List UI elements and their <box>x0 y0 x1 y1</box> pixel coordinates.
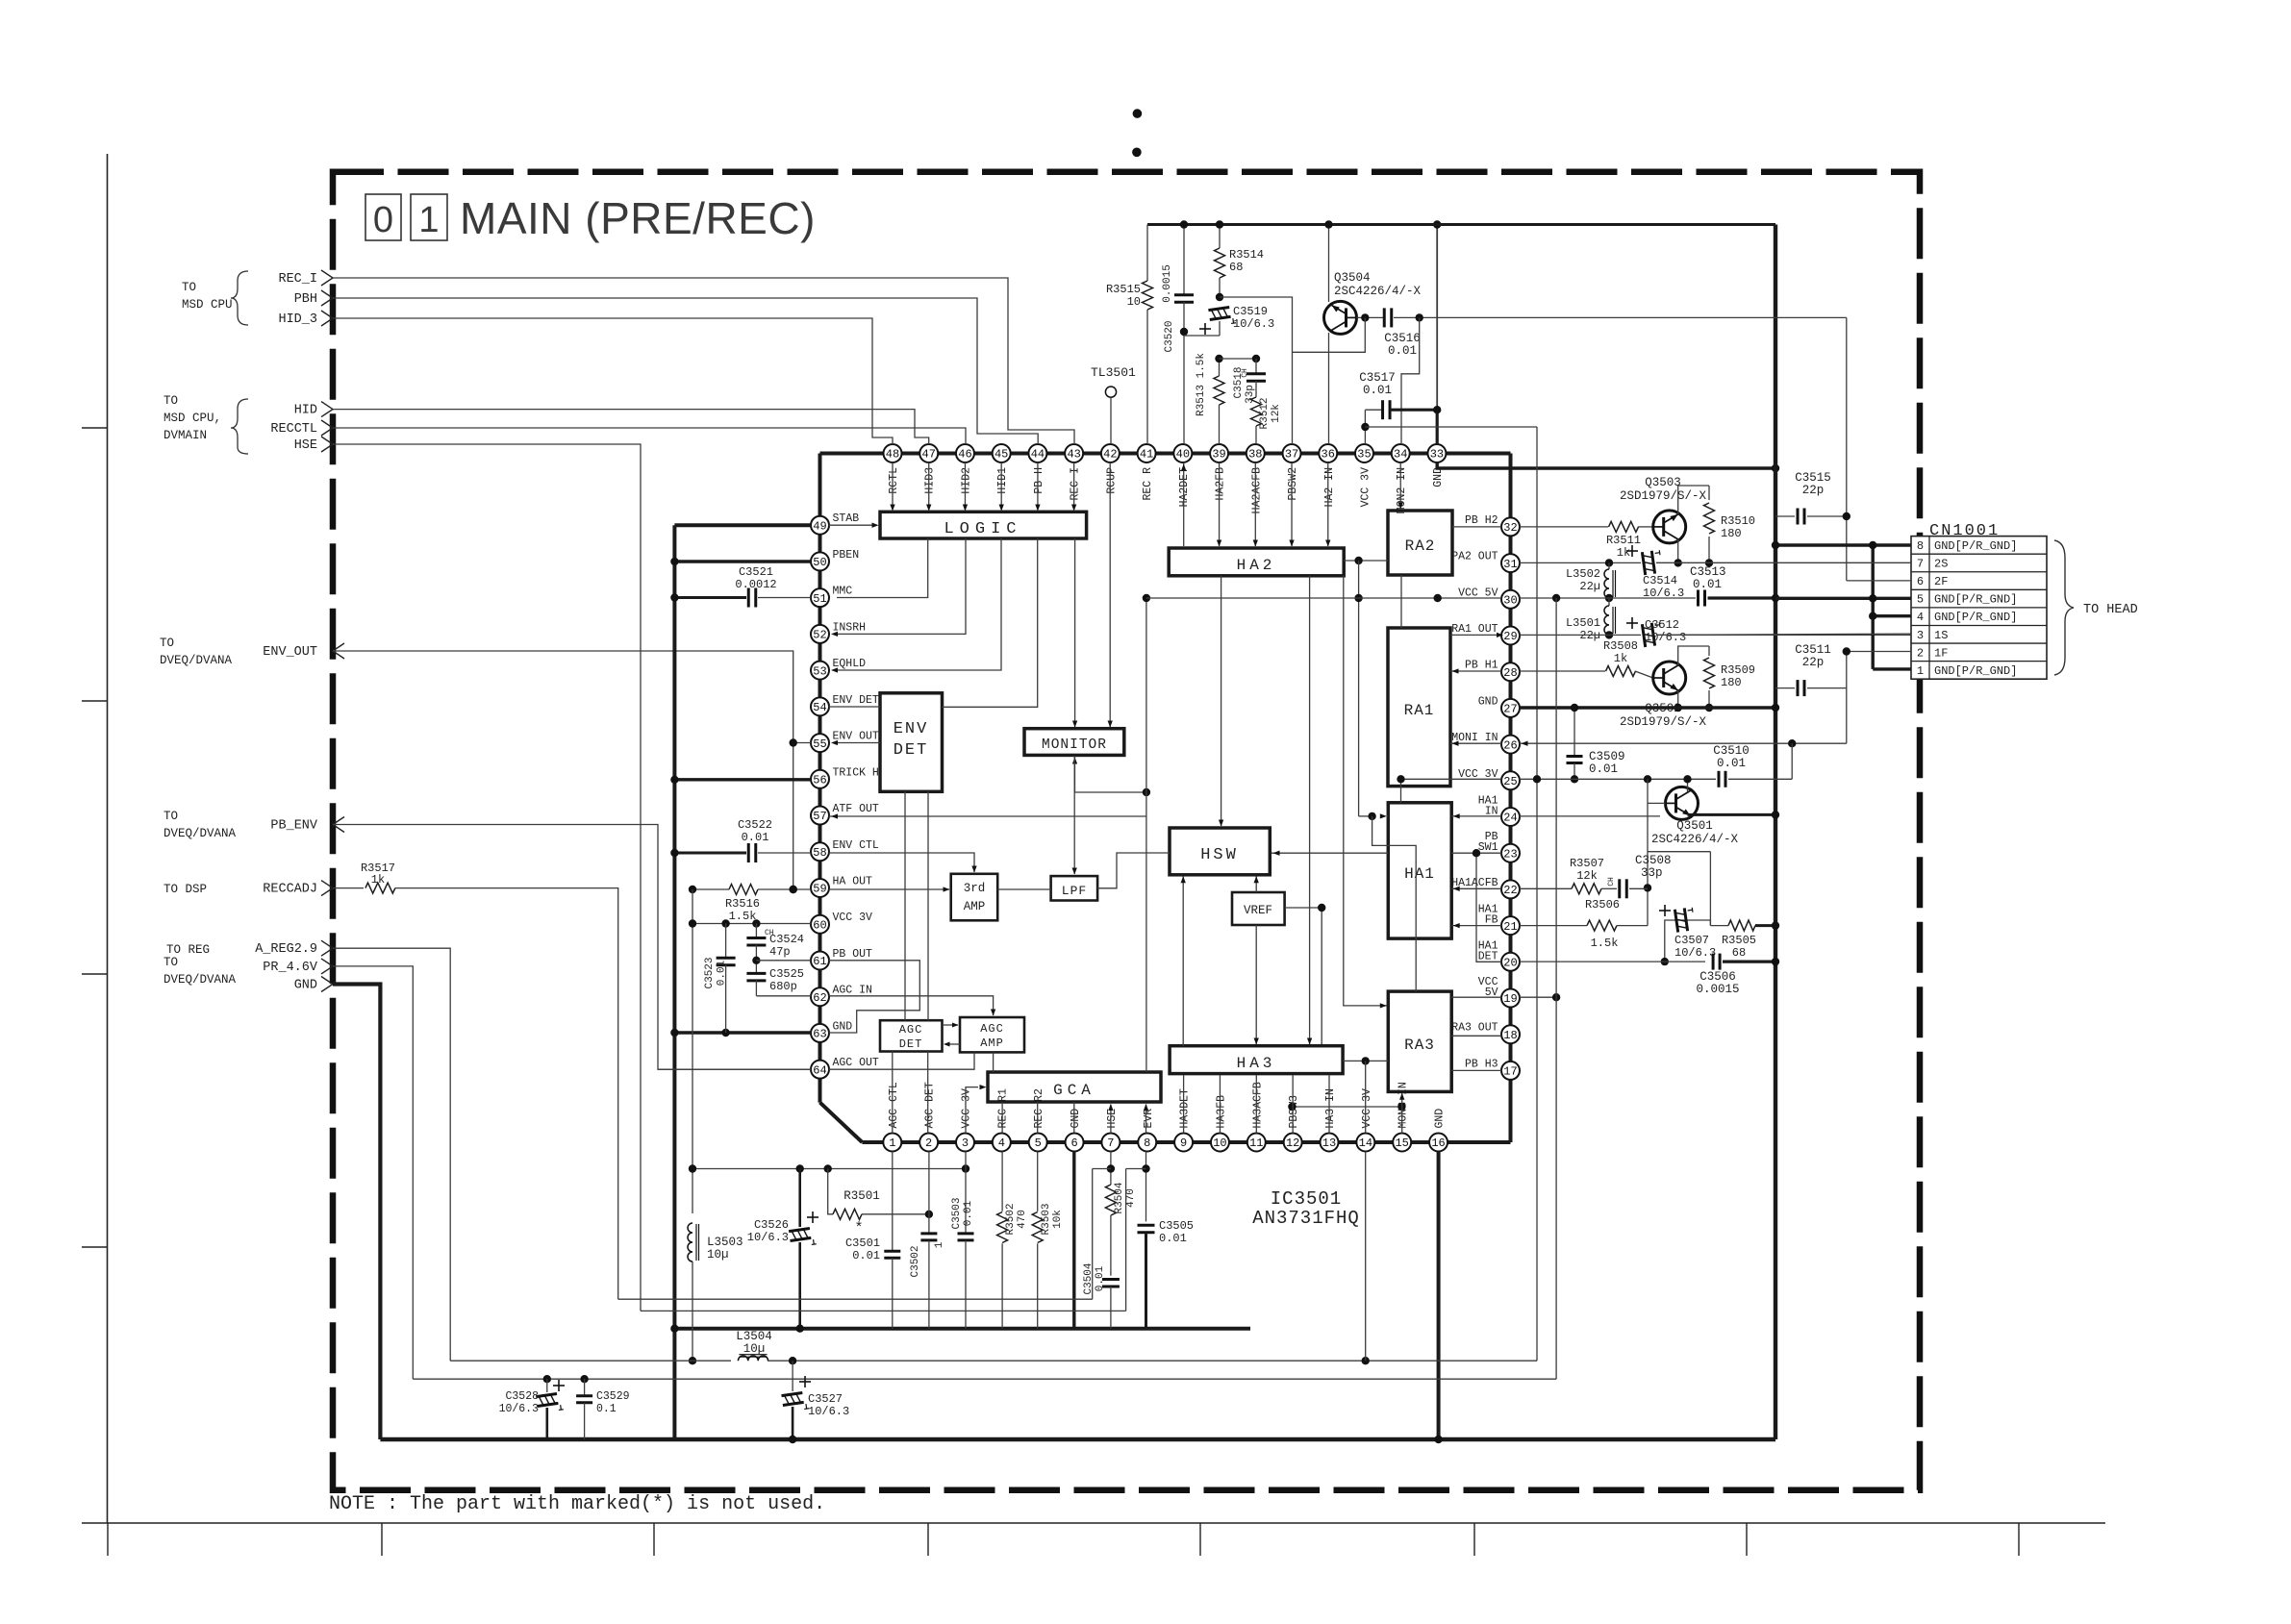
svg-text:0.01: 0.01 <box>1363 384 1392 397</box>
svg-text:RCUP: RCUP <box>1105 467 1118 494</box>
IO port RECCADJ <box>321 881 333 896</box>
wire pin 6 GND down <box>1072 1152 1075 1329</box>
wire pin 22 HA1ACFB into HA1 <box>1451 887 1501 889</box>
net PR_4.6V down <box>333 966 413 1379</box>
svg-text:2: 2 <box>925 1137 932 1150</box>
block HA1 <box>1388 803 1451 938</box>
pin 4 (REC R1) bottom row <box>993 1134 1011 1152</box>
capacitor C3511 22p <box>1775 687 1795 689</box>
pin 9 (HA3DET) bottom row <box>1174 1134 1193 1152</box>
svg-text:R3508: R3508 <box>1603 639 1638 653</box>
pin 58 (ENV CTL) left column <box>811 842 829 861</box>
svg-text:TO: TO <box>160 637 174 650</box>
svg-text:20: 20 <box>1503 957 1517 970</box>
svg-text:R3510: R3510 <box>1721 514 1755 528</box>
svg-text:0.01: 0.01 <box>1693 578 1722 591</box>
IO port REC_I <box>321 270 333 286</box>
wires pins 48-43 into LOGIC top <box>892 462 894 510</box>
svg-text:GND: GND <box>294 979 317 993</box>
IO port PB_ENV <box>333 817 344 833</box>
svg-text:14: 14 <box>1359 1137 1372 1150</box>
svg-text:10: 10 <box>1127 295 1141 309</box>
IO port RECCTL <box>321 420 333 436</box>
wire pin 21 HA1 FB with R3506 <box>1520 925 1587 927</box>
svg-text:VCC 3V: VCC 3V <box>961 1088 973 1129</box>
svg-text:23: 23 <box>1503 847 1517 861</box>
svg-text:PB H1: PB H1 <box>1465 660 1498 672</box>
capacitor C3523 0.01 <box>725 924 727 959</box>
pin 46 (HID2) top row <box>956 444 974 462</box>
svg-text:ENV: ENV <box>894 720 929 738</box>
wire ENV DET right to LOGIC bottom <box>943 538 1038 707</box>
block LPF <box>1051 876 1098 900</box>
svg-text:L3504: L3504 <box>736 1330 772 1343</box>
svg-text:RCTL: RCTL <box>888 467 900 494</box>
svg-text:GND[P/R_GND]: GND[P/R_GND] <box>1934 611 2017 624</box>
svg-text:ENV DET: ENV DET <box>833 694 879 707</box>
svg-text:TO: TO <box>182 281 196 294</box>
wire pin 20 HA1 DET up to PB SW1 line <box>1476 853 1501 962</box>
wire HA3 top to HSW bottom <box>1182 877 1184 1046</box>
svg-text:VREF: VREF <box>1244 904 1272 917</box>
svg-text:0.1: 0.1 <box>596 1403 617 1415</box>
wire RA2 right to pin 32 <box>1452 526 1501 528</box>
inductor L3501 22u <box>1608 598 1610 606</box>
svg-text:8: 8 <box>1144 1137 1150 1150</box>
svg-text:C3521: C3521 <box>739 565 773 579</box>
transistor Q3504 2SC4226/4/-X <box>1328 225 1330 303</box>
net MONI IN to C3510 <box>1791 743 1793 779</box>
svg-text:59: 59 <box>813 883 826 896</box>
frame tick left y1013 <box>82 973 108 975</box>
svg-text:MMC: MMC <box>833 586 853 598</box>
resistor R3515 10 <box>1143 281 1153 310</box>
svg-text:1S: 1S <box>1934 629 1948 642</box>
pin 26 (MONI IN) right column <box>1501 736 1520 754</box>
pin 8 (EVR) bottom row <box>1138 1134 1156 1152</box>
wire C3507 down to pin20 line <box>1665 920 1670 962</box>
IO port HID_3 <box>321 311 333 326</box>
net ENV_OUT via pin 55 to pin 59 <box>333 651 793 889</box>
svg-text:AGC DET: AGC DET <box>924 1082 937 1128</box>
wire AGC AMP bottom to AGC OUT <box>829 1052 974 1069</box>
svg-text:C3505: C3505 <box>1159 1219 1194 1233</box>
svg-text:10/6.3: 10/6.3 <box>1674 946 1716 960</box>
IO port GND <box>321 977 333 992</box>
IO port PBH <box>321 290 333 306</box>
svg-text:2SD1979/S/-X: 2SD1979/S/-X <box>1620 489 1707 503</box>
svg-text:C3528: C3528 <box>505 1390 539 1403</box>
svg-text:56: 56 <box>813 774 826 787</box>
connector 1F wire <box>1847 651 1911 653</box>
wire pin 57 ATF OUT <box>829 815 1146 817</box>
net PBH to pin 44 <box>333 298 1038 444</box>
svg-text:SW1: SW1 <box>1478 841 1498 854</box>
resistor R3512 12k <box>1255 381 1257 397</box>
svg-text:11: 11 <box>1249 1137 1263 1150</box>
svg-text:46: 46 <box>958 448 971 462</box>
svg-text:TO HEAD: TO HEAD <box>2083 603 2138 617</box>
pin 18 (RA3 OUT) right column <box>1501 1025 1520 1043</box>
wire pin 34 MON2 IN into RA2 top <box>1399 462 1401 509</box>
svg-text:57: 57 <box>813 810 826 823</box>
wire RA3 right to pin 18 RA3 OUT <box>1451 1035 1501 1037</box>
svg-text:DVEQ/DVANA: DVEQ/DVANA <box>164 827 237 840</box>
svg-text:R3516: R3516 <box>725 897 760 911</box>
net PA2 OUT to connector 2S <box>1520 562 1641 563</box>
net 1F vertical to connector <box>1846 652 1848 744</box>
net PB_ENV to pin 64 <box>333 825 811 1070</box>
svg-text:10/6.3: 10/6.3 <box>499 1403 540 1415</box>
connector 2S wire <box>1656 562 1911 563</box>
svg-text:25: 25 <box>1503 775 1517 788</box>
svg-text:REC R2: REC R2 <box>1033 1088 1045 1129</box>
wire R3514 junction to pin 37 line <box>1220 297 1293 444</box>
svg-text:12k: 12k <box>1271 404 1282 423</box>
ecap C3507 10/6.3 <box>1670 919 1693 921</box>
capacitor C3522 0.01 on pin 58 line <box>674 852 746 855</box>
capacitor C3505 0.01 <box>1138 1224 1155 1227</box>
svg-text:1: 1 <box>418 200 439 240</box>
svg-text:47: 47 <box>922 448 936 462</box>
net HSE runaround to pin 7 <box>333 444 641 1311</box>
wire C3516 branch to pin 34 <box>1401 317 1420 444</box>
capacitor C3504 0.01 <box>1102 1278 1120 1281</box>
svg-text:HA2ACFB: HA2ACFB <box>1250 467 1263 513</box>
pin 49 (STAB) left column <box>811 516 829 535</box>
pin 38 (HA2ACFB) top row <box>1246 444 1265 462</box>
block MONITOR <box>1024 729 1124 756</box>
wire pin 55 ENV OUT from block <box>837 742 880 744</box>
svg-text:2SD1979/S/-X: 2SD1979/S/-X <box>1620 715 1707 729</box>
svg-text:10k: 10k <box>1052 1210 1064 1229</box>
wire pin 49 STAB arrow into LOGIC <box>829 524 872 526</box>
wire bus to pin 49 <box>674 523 811 527</box>
svg-text:27: 27 <box>1503 703 1517 716</box>
frame tick bottom x1816 <box>1746 1523 1748 1556</box>
wire pin 32 PB H2 line <box>1520 526 1608 528</box>
svg-text:MAIN (PRE/REC): MAIN (PRE/REC) <box>460 193 816 243</box>
wire pin 59 HA OUT into 3rd AMP <box>829 888 949 890</box>
svg-text:Q3501: Q3501 <box>1676 819 1713 833</box>
wire Q3501 collector up <box>1687 779 1689 791</box>
wire Q3504 collector to pin 36 <box>1328 333 1330 444</box>
pin 30 (VCC 5V) right column <box>1501 590 1520 609</box>
svg-text:C3514: C3514 <box>1643 574 1677 587</box>
svg-text:DVEQ/DVANA: DVEQ/DVANA <box>164 973 237 987</box>
svg-text:AMP: AMP <box>980 1037 1004 1050</box>
svg-text:0.01: 0.01 <box>852 1249 880 1262</box>
IO port PR_4.6V <box>321 959 333 974</box>
registration dot upper <box>1133 109 1143 118</box>
svg-text:AMP: AMP <box>964 900 986 913</box>
wire pin 22 HA1ACFB with R3507 C3508 <box>1520 887 1572 889</box>
frame tick bottom x397 <box>381 1523 383 1556</box>
wire pin 60 VCC 3V line <box>692 923 811 925</box>
wire RA1 right to pin 29 RA1 OUT <box>1450 634 1501 636</box>
svg-text:58: 58 <box>813 846 826 860</box>
wire RA3 right to pin 17 PB H3 <box>1451 1069 1501 1071</box>
svg-text:2SC4226/4/-X: 2SC4226/4/-X <box>1334 285 1422 298</box>
ecap C3528 10/6.3 <box>546 1379 548 1392</box>
sheet frame bottom border line <box>82 1522 2105 1524</box>
svg-text:0.01: 0.01 <box>742 831 769 844</box>
pin 42 (RCUP) top row <box>1101 444 1120 462</box>
net pin 35 VCC3V up <box>1364 410 1366 444</box>
connector GND wires rows 8/5/4/1 <box>1775 543 1911 546</box>
svg-text:REC R: REC R <box>1142 467 1154 501</box>
wire LPF to HSW left <box>1097 853 1170 888</box>
connector CN1001 body <box>1911 537 2047 680</box>
wire y373 R3513 to C3518 <box>1220 358 1257 360</box>
pin 62 (AGC IN) left column <box>811 987 829 1006</box>
wire pin 62 left stub <box>756 995 811 997</box>
brace group1 <box>231 271 248 325</box>
wire HA2 bottom to RA3 left <box>1344 576 1387 1006</box>
svg-text:C3509: C3509 <box>1589 750 1625 763</box>
svg-text:31: 31 <box>1503 558 1517 571</box>
svg-text:1: 1 <box>889 1137 895 1150</box>
svg-text:63: 63 <box>813 1028 826 1041</box>
wire HA2 right to RA2 left with VCC branch <box>1344 560 1388 562</box>
svg-text:6: 6 <box>1917 575 1924 588</box>
svg-text:GND[P/R_GND]: GND[P/R_GND] <box>1934 664 2017 678</box>
svg-text:GND[P/R_GND]: GND[P/R_GND] <box>1934 593 2017 607</box>
svg-text:L3501: L3501 <box>1566 616 1600 630</box>
svg-text:35: 35 <box>1357 448 1371 462</box>
pin 33 (GND) top row <box>1427 444 1446 462</box>
svg-text:PB H3: PB H3 <box>1465 1058 1498 1070</box>
pin 34 (MON2 IN) top row <box>1392 444 1410 462</box>
svg-text:68: 68 <box>1229 261 1243 274</box>
wire pin 28 PB H1 line <box>1520 670 1605 672</box>
svg-text:52: 52 <box>813 629 826 642</box>
block AGC DET <box>880 1020 943 1051</box>
pin 63 (GND) left column <box>811 1024 829 1042</box>
wire pin 30 VCC5V external <box>1520 597 1696 599</box>
frame tick bottom x965 <box>927 1523 929 1556</box>
pin 10 (HA3FB) bottom row <box>1211 1134 1229 1152</box>
wire HA2 bottom to HSW top <box>1221 576 1222 826</box>
svg-text:3: 3 <box>1917 629 1924 642</box>
wire pin 20 HA1 DET external with C3506 <box>1520 961 1705 962</box>
resistor R3516 1.5k on pin 59 line <box>692 888 729 890</box>
svg-text:HID_3: HID_3 <box>278 312 317 327</box>
svg-text:6: 6 <box>1070 1137 1077 1150</box>
wire Q3502 emitter to GND line <box>1677 690 1679 708</box>
svg-text:16: 16 <box>1431 1137 1445 1150</box>
svg-text:30: 30 <box>1503 594 1517 608</box>
svg-text:4: 4 <box>998 1137 1005 1150</box>
svg-text:50: 50 <box>813 556 826 569</box>
svg-text:RA1 OUT: RA1 OUT <box>1451 623 1498 636</box>
svg-text:LPF: LPF <box>1062 884 1087 898</box>
transistor Q3502 2SD1979/S/-X <box>1653 662 1686 694</box>
svg-text:HA3: HA3 <box>1237 1055 1276 1072</box>
resistor R3514 68 on pin 39 line <box>1219 225 1221 249</box>
svg-text:470: 470 <box>1017 1210 1028 1229</box>
svg-text:DET: DET <box>894 741 929 760</box>
block AGC AMP <box>960 1017 1024 1052</box>
wire bus to pin 56 TRICK H <box>674 778 811 781</box>
svg-text:C3527: C3527 <box>808 1392 843 1406</box>
pin 55 (ENV OUT) left column <box>811 734 829 752</box>
svg-text:C3511: C3511 <box>1795 643 1831 657</box>
svg-text:HSW: HSW <box>1200 846 1239 864</box>
svg-text:C3526: C3526 <box>754 1218 789 1232</box>
IO port ENV_OUT <box>333 643 344 659</box>
pin 27 (GND) right column <box>1501 699 1520 717</box>
pin 16 (GND) bottom row <box>1429 1134 1448 1152</box>
svg-text:62: 62 <box>813 991 826 1005</box>
svg-text:53: 53 <box>813 664 826 678</box>
svg-text:0: 0 <box>373 200 393 240</box>
svg-text:GND: GND <box>1478 695 1498 708</box>
svg-text:RECCADJ: RECCADJ <box>263 883 317 897</box>
wire pin 64 AGC OUT <box>658 1068 811 1070</box>
pin 28 (PB H1) right column <box>1501 662 1520 681</box>
pin 29 (RA1 OUT) right column <box>1501 627 1520 645</box>
net VCC3V vertical x1598 <box>1536 427 1538 1361</box>
frame tick bottom x2099 <box>2018 1523 2020 1556</box>
pin 7 (HSE) bottom row <box>1101 1134 1120 1152</box>
svg-text:IC3501: IC3501 <box>1271 1188 1342 1210</box>
svg-text:10/6.3: 10/6.3 <box>747 1231 789 1244</box>
pin 35 (VCC 3V) top row <box>1355 444 1373 462</box>
svg-text:GCA: GCA <box>1053 1082 1095 1099</box>
svg-text:PBEN: PBEN <box>833 549 860 562</box>
svg-text:7: 7 <box>1107 1137 1114 1150</box>
svg-text:51: 51 <box>813 592 826 606</box>
frame tick bottom x1533 <box>1473 1523 1475 1556</box>
svg-text:10: 10 <box>1213 1137 1226 1150</box>
ecap C3514 10/6.3 <box>1642 550 1662 575</box>
svg-text:C3503: C3503 <box>951 1197 963 1229</box>
svg-text:REC I: REC I <box>1070 467 1082 501</box>
svg-text:38: 38 <box>1248 448 1262 462</box>
net VCC3V line y1415 with L3504 <box>450 1360 731 1362</box>
svg-text:REC R1: REC R1 <box>996 1088 1009 1129</box>
pin 36 (HA2 IN) top row <box>1319 444 1337 462</box>
resistor R3502 470 on pin4 line <box>1001 1152 1003 1212</box>
svg-text:C3513: C3513 <box>1690 565 1726 579</box>
svg-text:AGC: AGC <box>980 1022 1004 1036</box>
svg-text:HA2FB: HA2FB <box>1215 467 1227 501</box>
pin 13 (HA3 IN) bottom row <box>1321 1134 1339 1152</box>
svg-text:L3502: L3502 <box>1566 567 1600 581</box>
svg-text:47p: 47p <box>769 945 791 959</box>
wire HA1 right to pin 24 arrow <box>1451 815 1501 817</box>
svg-text:1k: 1k <box>371 873 385 887</box>
net HSE horizontal y1363 <box>641 1310 1126 1312</box>
net VCC3V long y444 <box>1365 426 1537 428</box>
svg-text:10µ: 10µ <box>743 1342 766 1356</box>
wire Q3503 collector <box>1678 486 1709 514</box>
wire pin 61 left stub <box>756 960 811 962</box>
resistor R3509 180 <box>1708 646 1710 656</box>
svg-text:ENV CTL: ENV CTL <box>833 839 879 852</box>
svg-text:C3525: C3525 <box>769 967 804 981</box>
svg-text:R3505: R3505 <box>1722 934 1756 947</box>
test point TL3501 <box>1105 387 1116 397</box>
svg-text:55: 55 <box>813 737 826 751</box>
VCC sub-bus y1215.5 <box>692 1168 966 1170</box>
wires pins 9-13 into HA3 bottom <box>1183 1075 1185 1134</box>
wire VCC3V stub x720 down to sub-bus <box>692 889 693 1169</box>
wire MONITOR bottom junction to EVR rail <box>1075 756 1146 792</box>
svg-text:15: 15 <box>1395 1137 1408 1150</box>
wire EVR vertical rail x1192 <box>1145 598 1147 1072</box>
IC3501 body outline <box>820 452 1511 456</box>
svg-text:10µ: 10µ <box>707 1248 729 1262</box>
svg-text:HA3DET: HA3DET <box>1179 1088 1192 1129</box>
resistor R3506 1.5k <box>1587 920 1617 931</box>
svg-text:R3502: R3502 <box>1005 1203 1017 1235</box>
pin 54 (ENV DET) left column <box>811 697 829 715</box>
svg-text:2: 2 <box>1917 646 1924 660</box>
svg-text:680p: 680p <box>769 980 797 993</box>
svg-text:0.01: 0.01 <box>1095 1265 1106 1291</box>
frame tick left y729 <box>82 700 108 702</box>
svg-text:1k: 1k <box>1617 546 1630 560</box>
svg-text:C3507: C3507 <box>1674 934 1709 947</box>
svg-text:TO: TO <box>164 394 178 408</box>
svg-text:R3514: R3514 <box>1229 248 1264 262</box>
svg-text:C3515: C3515 <box>1795 471 1831 485</box>
svg-text:HID3: HID3 <box>924 467 937 494</box>
svg-text:10/6.3: 10/6.3 <box>808 1405 849 1418</box>
svg-text:Q3504: Q3504 <box>1334 271 1371 285</box>
right GND bus vertical x1846 <box>1774 225 1777 1440</box>
wire pin 33 GND elbow to bus <box>1437 462 1775 468</box>
pin 40 (HA2DET) top row <box>1173 444 1192 462</box>
resistor R3513 1.5k on pin 39 line <box>1219 359 1221 376</box>
net PR4.6V line y1434 <box>413 1378 1556 1380</box>
registration dot lower <box>1132 148 1142 158</box>
wire MONITOR bottom to LPF top <box>1073 756 1075 874</box>
svg-text:180: 180 <box>1721 676 1742 689</box>
connector 1S wire <box>1656 634 1911 635</box>
wire pin 25 VCC3V external <box>1520 778 1716 780</box>
svg-text:68: 68 <box>1732 946 1746 960</box>
svg-text:2F: 2F <box>1934 575 1948 588</box>
svg-text:1: 1 <box>934 1241 945 1248</box>
svg-text:C3519: C3519 <box>1233 305 1268 318</box>
svg-text:R3503: R3503 <box>1041 1203 1052 1235</box>
capacitor C3521 0.0012 on pin 51 line <box>674 596 746 599</box>
wire AGC DET bottom to pin 1 <box>892 1052 894 1134</box>
net RECCADJ horizontal y1351 <box>618 1298 1093 1300</box>
svg-text:19: 19 <box>1503 992 1517 1006</box>
svg-text:AGC OUT: AGC OUT <box>833 1057 879 1069</box>
block HA3 <box>1170 1046 1343 1074</box>
svg-text:STAB: STAB <box>833 512 860 525</box>
svg-text:PBH: PBH <box>294 292 317 307</box>
block RA1 <box>1388 628 1450 787</box>
pin 24 (HA1 IN) right column <box>1501 808 1520 826</box>
wire LOGIC bottom to pin 52 INSRH <box>837 538 966 634</box>
svg-text:AGC IN: AGC IN <box>833 985 872 997</box>
wire Q3504 base node <box>1357 316 1384 318</box>
ecap C3526 10/6.3 <box>798 1169 801 1228</box>
wire Q3503 emitter to PA2 line <box>1677 539 1679 563</box>
pin 52 (INSRH) left column <box>811 625 829 643</box>
frame tick bottom x1248 <box>1199 1523 1201 1556</box>
svg-text:FB: FB <box>1485 914 1498 927</box>
net VCC5V vertical x1618 <box>1555 598 1557 997</box>
svg-text:29: 29 <box>1503 630 1517 643</box>
wire pin 15 MON3 IN into RA3 bottom <box>1401 1093 1403 1134</box>
